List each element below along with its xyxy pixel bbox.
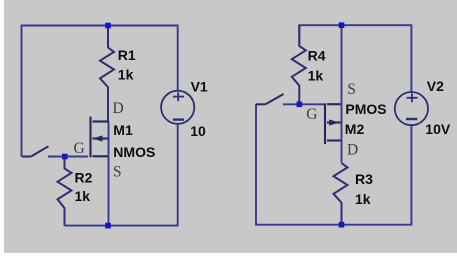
- svg-text:1k: 1k: [308, 67, 324, 83]
- resistor R2: [58, 157, 72, 226]
- node top junction dot (M2 source at rail): [339, 22, 345, 28]
- svg-text:D: D: [347, 142, 358, 159]
- node gate junction dot (R4 bottom): [297, 102, 303, 108]
- source stub: [327, 103, 342, 105]
- wire switch contact to gate junction: [48, 156, 88, 158]
- wire top rail left: [22, 26, 178, 157]
- svg-text:M1: M1: [113, 122, 133, 138]
- voltage source V1: [161, 91, 194, 124]
- switch S2 pole stub: [256, 103, 266, 105]
- drain stub: [327, 139, 342, 141]
- node top junction dot (R1 top): [105, 23, 111, 29]
- switch S1 blade: [31, 146, 49, 156]
- voltage source V2: [395, 92, 428, 125]
- bulk stub: [327, 121, 342, 123]
- wire V1 bottom to rail: [65, 124, 178, 226]
- svg-text:R1: R1: [118, 47, 136, 63]
- wire M2 channel + drain lead to R3: [341, 104, 343, 162]
- svg-text:R4: R4: [308, 47, 326, 63]
- node gate junction dot: [62, 154, 68, 160]
- source stub: [93, 155, 109, 157]
- switch S1 pole stub: [22, 156, 32, 158]
- svg-text:NMOS: NMOS: [113, 144, 155, 160]
- bulk arrow of M1 (points left): [93, 135, 103, 141]
- transistor M1 (NMOS): [91, 117, 109, 158]
- wire top rail right: [299, 25, 411, 92]
- svg-text:1k: 1k: [75, 188, 91, 204]
- bulk arrow of M2 (points right): [329, 119, 339, 125]
- svg-text:S: S: [347, 81, 356, 98]
- wire switch contact to gate junction: [283, 103, 325, 105]
- svg-text:D: D: [113, 100, 124, 117]
- svg-text:V1: V1: [191, 79, 208, 95]
- wire drain lead (R1 to M1) + source lead to bottom rail: [108, 122, 110, 226]
- svg-text:M2: M2: [345, 121, 365, 137]
- drain stub: [93, 120, 109, 122]
- bulk stub: [93, 137, 109, 139]
- svg-text:1k: 1k: [355, 191, 371, 207]
- resistor R1: [100, 26, 114, 122]
- wire V2 bottom to rail and left riser: [256, 104, 411, 224]
- svg-text:V2: V2: [427, 78, 444, 94]
- svg-text:S: S: [113, 164, 122, 181]
- svg-text:10: 10: [190, 123, 206, 139]
- transistor M2 (PMOS): [325, 103, 342, 144]
- resistor R4: [292, 25, 306, 104]
- gate bar: [324, 103, 326, 144]
- svg-text:10V: 10V: [425, 121, 451, 137]
- switch S2 blade: [266, 94, 284, 104]
- node bottom junction dot (R3 bottom at rail): [339, 222, 345, 228]
- gate bar: [89, 117, 91, 158]
- svg-text:1k: 1k: [118, 67, 134, 83]
- wire source lead (top rail to M2): [341, 25, 343, 104]
- svg-text:G: G: [306, 106, 317, 123]
- svg-text:PMOS: PMOS: [345, 101, 386, 117]
- svg-text:G: G: [74, 140, 85, 157]
- node bottom junction dot (M1 source): [105, 223, 111, 229]
- svg-text:R3: R3: [355, 171, 373, 187]
- svg-text:R2: R2: [75, 170, 93, 186]
- resistor R3: [334, 163, 348, 225]
